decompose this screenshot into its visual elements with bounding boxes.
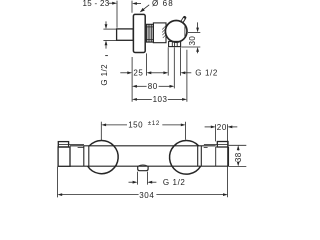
valve housing [153, 23, 166, 43]
ext line escutcheon front / right edge [227, 124, 229, 197]
left knob [88, 140, 119, 173]
dim 25 left arrow [120, 71, 132, 74]
left escutcheon body [58, 147, 70, 166]
svg-text:103: 103 [153, 95, 168, 104]
right sleeve top line [204, 143, 217, 145]
dimension 15-23 text [82, 0, 109, 8]
left stub line [78, 146, 84, 148]
dim 30 bottom arrow [196, 47, 199, 53]
inlet dim ext line top [103, 28, 116, 30]
dim 25 / G1/2 shared arrows [147, 71, 169, 74]
extension line wall face [131, 1, 133, 13]
safety button tab [176, 18, 184, 32]
svg-text:G 1/2: G 1/2 [100, 64, 109, 86]
svg-text:G 1/2: G 1/2 [195, 69, 218, 78]
dim 30 ext line upper [188, 31, 200, 33]
dim 150±12 text [128, 120, 160, 129]
dim 304 text [139, 191, 154, 200]
left collar lines [84, 146, 89, 166]
dim 20 text [217, 123, 227, 132]
ext line escutcheon front [146, 53, 148, 75]
dimension 15-23 right arrow [132, 2, 141, 5]
svg-text:38: 38 [234, 152, 243, 162]
leader Ø 68 [140, 5, 150, 13]
svg-text:20: 20 [217, 123, 227, 132]
svg-text:304: 304 [139, 191, 154, 200]
label G 1/2 inlet (rotated) [100, 64, 109, 86]
step lines escutcheon to nut [145, 26, 146, 28]
ext line handle front [186, 50, 188, 102]
svg-text:15 - 23: 15 - 23 [82, 0, 109, 8]
dim 80 text [148, 82, 158, 91]
inlet dim G1/2 top arrow [105, 21, 108, 29]
dim 150±12 left arrow [101, 124, 127, 127]
svg-text:150: 150 [128, 120, 143, 129]
svg-text:Ø 68: Ø 68 [152, 0, 174, 8]
left cap [58, 142, 68, 147]
dim Ø38 ext top [229, 144, 247, 146]
label G1/2 outlet arrow [181, 71, 192, 74]
knob front edge chord [184, 26, 186, 36]
svg-text:80: 80 [148, 82, 158, 91]
right knob [170, 141, 201, 175]
ext line 304 left [56, 167, 58, 198]
right cap [217, 142, 228, 148]
ext line left knob axis [100, 122, 102, 140]
ext line outlet right (front) [146, 172, 148, 185]
dim 103 text [153, 95, 168, 104]
handle knob (side view) [165, 21, 187, 43]
right stub line [204, 146, 208, 148]
dim 304 [57, 193, 227, 196]
svg-text:30: 30 [188, 36, 197, 46]
ext line wall face lower [131, 57, 133, 102]
bottom G 1/2 text [163, 178, 186, 187]
dim Ø38 ext bottom [229, 165, 247, 167]
dim Ø38 arrows [237, 145, 240, 166]
label Ø 68 [152, 0, 174, 8]
outlet nut below handle [169, 41, 181, 46]
dim Ø38 text (rotated) [234, 152, 243, 162]
inlet dim ext line bottom [103, 39, 116, 41]
dim 25 text [133, 69, 143, 78]
left sleeve top line [69, 144, 84, 146]
right escutcheon body [216, 147, 229, 167]
ext line right knob axis [185, 122, 187, 140]
escutcheon (side view) [133, 14, 145, 52]
svg-text:G 1/2: G 1/2 [163, 178, 186, 187]
dim 30 top arrow [196, 22, 199, 32]
bottom G1/2 right arrow [147, 181, 156, 184]
dim 30 ext line lower [181, 46, 200, 48]
dim 150±12 right arrow [162, 124, 185, 127]
svg-text:±12: ±12 [148, 120, 160, 127]
wall union square [117, 29, 134, 40]
svg-text:25: 25 [133, 69, 143, 78]
label G 1/2 outlet text [195, 69, 218, 78]
dimension 15-23 left arrow [109, 2, 117, 5]
extension line wall-union left face [116, 1, 118, 28]
dim 20 right arrow [228, 126, 238, 129]
ext line outlet left (front) [136, 172, 138, 185]
ext line escutcheon back [215, 124, 217, 141]
ext line outlet left [167, 47, 169, 75]
bottom G1/2 left arrow [129, 181, 138, 184]
bar top edge [70, 145, 216, 147]
ext line outlet right [180, 47, 182, 75]
dim 20 left arrow [205, 126, 216, 129]
right collar lines [198, 146, 202, 166]
dim 80 [132, 85, 174, 88]
knurled nut [146, 24, 153, 42]
bar bottom edge [70, 165, 228, 167]
inlet dim G1/2 bottom arrow [105, 40, 108, 48]
hatching housing/handle joint [162, 26, 166, 38]
ext line outlet axis [173, 47, 175, 88]
dim 103 [132, 98, 187, 101]
tick above inlet label [105, 55, 108, 57]
dim 30 text (rotated) [188, 36, 197, 46]
bottom outlet nut [138, 165, 148, 171]
